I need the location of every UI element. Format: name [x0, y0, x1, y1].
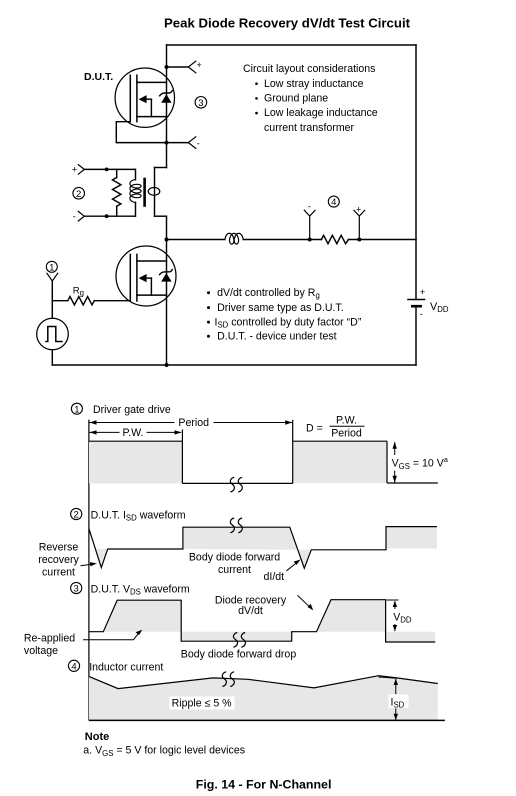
- svg-text:D =: D =: [306, 423, 323, 435]
- battery VDD: [408, 300, 425, 307]
- label body diode forward current: [189, 552, 280, 577]
- svg-text:ISD controlled by duty factor: ISD controlled by duty factor “D”: [215, 316, 362, 329]
- node current probe +: [354, 204, 365, 241]
- svg-text:Re-applied: Re-applied: [24, 633, 75, 645]
- transistor Q1 D.U.T. MOSFET: [115, 68, 174, 127]
- node 1 waveform label: [71, 403, 170, 416]
- node current probe -: [304, 202, 315, 242]
- node 1 probe: [47, 273, 58, 300]
- svg-text:P.W.: P.W.: [336, 415, 357, 427]
- svg-text:current transformer: current transformer: [264, 122, 355, 134]
- resistor Rg: [52, 297, 130, 305]
- wire: right VDD rail upper: [415, 45, 417, 300]
- svg-text:P.W.: P.W.: [122, 427, 143, 439]
- wire: jog to transformer secondary top: [155, 167, 167, 169]
- svg-text:-: -: [308, 202, 311, 212]
- wire: bottom ground return rail: [52, 364, 416, 366]
- svg-text:D.U.T. VDS waveform: D.U.T. VDS waveform: [91, 583, 190, 596]
- node 4 label: [328, 196, 339, 208]
- svg-text:voltage: voltage: [24, 645, 58, 657]
- label re-applied voltage: [24, 630, 142, 657]
- svg-text:Low leakage inductance: Low leakage inductance: [264, 107, 378, 119]
- svg-text:2: 2: [74, 510, 79, 521]
- svg-text:D.U.T.: D.U.T.: [84, 71, 113, 83]
- waveform 3 trace: [89, 600, 435, 642]
- svg-text:Body diode forward drop: Body diode forward drop: [181, 649, 297, 661]
- transformer T1 secondary loop: [148, 188, 160, 196]
- waveform 3 pulse A fill: [103, 600, 181, 632]
- svg-text:dV/dt: dV/dt: [238, 605, 263, 617]
- node: transformer + input: [72, 165, 136, 175]
- node 3 label: [195, 97, 207, 109]
- break symbol waveform 1: [230, 477, 242, 492]
- wire: main center rail lower (driver branch): [166, 216, 168, 365]
- waveform 3 sub-zero band 1 fill: [181, 632, 292, 642]
- svg-text:1: 1: [49, 262, 54, 273]
- transformer T1 primary winding: [130, 169, 141, 216]
- svg-text:Fig. 14 - For N-Channel: Fig. 14 - For N-Channel: [196, 777, 332, 791]
- svg-text:1: 1: [74, 404, 79, 415]
- wire: DUT gate-source short: [116, 122, 166, 143]
- break symbol waveform 2: [230, 518, 242, 533]
- wire: right VDD rail lower: [415, 306, 417, 365]
- resistor R2 current sense: [321, 235, 348, 243]
- wire: jog from transformer secondary bottom: [155, 215, 167, 217]
- svg-text:Body diode forward: Body diode forward: [189, 552, 280, 564]
- svg-text:dV/dt controlled by Rg: dV/dt controlled by Rg: [217, 287, 320, 300]
- wire: main center rail upper (DUT branch): [166, 45, 168, 168]
- wire: middle wire center segment: [243, 239, 321, 241]
- label dI/dt: [264, 560, 301, 584]
- node: DUT drain kelvin +: [165, 60, 202, 73]
- note bullet list: [207, 287, 362, 342]
- svg-text:2: 2: [76, 189, 81, 200]
- svg-text:+: +: [356, 204, 361, 214]
- svg-text:-: -: [73, 211, 76, 221]
- svg-text:Period: Period: [178, 417, 209, 429]
- svg-text:3: 3: [74, 584, 79, 595]
- svg-text:Reverse: Reverse: [39, 542, 79, 554]
- svg-text:4: 4: [71, 661, 76, 672]
- break symbol waveform 3: [233, 633, 245, 648]
- label reverse recovery current: [38, 542, 97, 579]
- node junction rail/bottom: [165, 363, 169, 367]
- dimension P.W.: [89, 427, 182, 439]
- svg-text:+: +: [197, 60, 202, 70]
- transistor Q2 driver MOSFET: [116, 246, 176, 306]
- svg-text:current: current: [42, 567, 75, 579]
- waveform 1 pulse B: [293, 420, 438, 484]
- dimension VGS: [392, 442, 448, 483]
- svg-text:+: +: [72, 165, 77, 175]
- node 3 waveform label: [71, 582, 190, 596]
- label D = P.W./Period: [306, 415, 365, 440]
- waveform 3 pulse B fill: [317, 600, 386, 632]
- dimension VDD waveform: [387, 600, 412, 631]
- node: DUT source kelvin -: [165, 137, 200, 149]
- dimension ISD: [389, 679, 409, 720]
- svg-text:4: 4: [331, 197, 336, 208]
- node: transformer - input: [73, 211, 136, 221]
- svg-text:recovery: recovery: [38, 554, 79, 566]
- diode D1 DUT body diode: [160, 91, 173, 103]
- waveform 3 sub-zero band 2 fill: [386, 632, 436, 642]
- waveform 4 trace: [89, 676, 438, 689]
- node 2 label: [73, 187, 85, 199]
- transformer T1 core: [143, 179, 146, 206]
- label ripple: [170, 697, 235, 710]
- resistor R1 transformer damping: [113, 169, 121, 216]
- svg-text:Circuit layout considerations: Circuit layout considerations: [243, 63, 375, 75]
- inductor L1: [225, 233, 243, 244]
- svg-text:dI/dt: dI/dt: [264, 571, 285, 583]
- dimension Period: [89, 417, 293, 430]
- svg-text:Period: Period: [331, 428, 362, 440]
- svg-text:Driver gate drive: Driver gate drive: [93, 404, 171, 416]
- pulse generator V1: [37, 301, 69, 365]
- waveform 2 band 2 fill: [386, 527, 437, 549]
- svg-text:current: current: [218, 564, 251, 576]
- node 4 waveform label: [68, 660, 163, 673]
- node junction rail/middle: [165, 238, 169, 242]
- svg-text:D.U.T. ISD waveform: D.U.T. ISD waveform: [91, 509, 186, 522]
- wire: transformer secondary vertical: [154, 168, 156, 217]
- svg-text:-: -: [420, 309, 423, 320]
- waveform 4 fill: [89, 676, 438, 720]
- waveform axis: [88, 420, 90, 721]
- svg-text:Ground plane: Ground plane: [264, 93, 328, 105]
- waveform 4 peak crease: [379, 677, 397, 678]
- svg-text:D.U.T. - device under test: D.U.T. - device under test: [217, 330, 337, 342]
- waveform 4 baseline: [89, 719, 445, 721]
- svg-text:-: -: [197, 138, 200, 148]
- wire: top rail from DUT drain node to VDD rail: [167, 44, 417, 46]
- node 2 waveform label: [71, 508, 186, 522]
- svg-text:Driver same type as D.U.T.: Driver same type as D.U.T.: [217, 302, 344, 314]
- svg-text:Inductor current: Inductor current: [89, 662, 163, 674]
- diode D2 driver body diode: [160, 269, 173, 281]
- wire: middle wire right segment: [349, 239, 417, 241]
- svg-text:+: +: [420, 287, 426, 298]
- waveform 2 trace: [89, 527, 437, 569]
- label diode recovery dV/dt: [215, 595, 313, 617]
- svg-text:3: 3: [198, 98, 203, 109]
- wire: middle wire left segment: [167, 239, 225, 241]
- waveform 2 reverse recovery triangle fill: [95, 549, 107, 568]
- waveform 1 pulse A: [89, 430, 182, 484]
- svg-text:Ripple ≤ 5 %: Ripple ≤ 5 %: [172, 698, 233, 710]
- break symbol waveform 4: [222, 672, 234, 687]
- node 1 label: [46, 261, 57, 273]
- waveform 2 band 1 fill: [183, 527, 311, 568]
- note circuit layout considerations: [243, 63, 378, 134]
- svg-text:Low stray inductance: Low stray inductance: [264, 78, 364, 90]
- svg-text:Peak Diode Recovery dV/dt Test: Peak Diode Recovery dV/dt Test Circuit: [164, 16, 411, 31]
- svg-text:Note: Note: [85, 731, 109, 743]
- wire waveform 1 low segment: [182, 482, 292, 484]
